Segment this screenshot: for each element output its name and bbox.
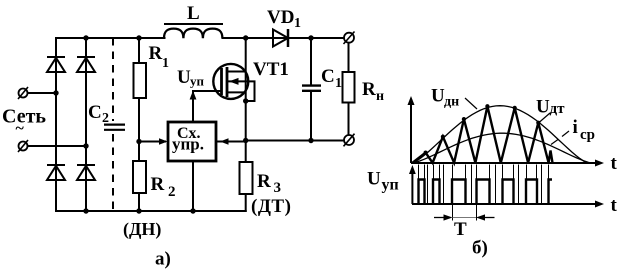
svg-text:R: R [257, 171, 271, 192]
svg-text:C: C [321, 66, 335, 87]
svg-text:2: 2 [102, 111, 109, 126]
svg-text:(ДТ): (ДТ) [251, 196, 291, 217]
svg-text:VD: VD [267, 7, 294, 28]
svg-text:1: 1 [335, 76, 342, 91]
svg-text:T: T [454, 219, 467, 240]
svg-text:н: н [376, 89, 384, 104]
svg-text:упр.: упр. [172, 135, 204, 154]
svg-text:U: U [367, 169, 381, 190]
svg-text:3: 3 [274, 180, 282, 196]
svg-text:1: 1 [294, 16, 301, 31]
svg-text:уп: уп [190, 74, 205, 89]
svg-text:~: ~ [16, 120, 25, 137]
svg-text:(ДН): (ДН) [123, 219, 161, 240]
svg-text:дт: дт [550, 101, 566, 117]
svg-text:R: R [362, 79, 376, 100]
svg-text:R: R [151, 174, 165, 195]
svg-text:VT1: VT1 [253, 59, 289, 80]
svg-text:U: U [431, 86, 445, 107]
svg-text:R: R [149, 43, 163, 64]
svg-text:б): б) [472, 238, 488, 259]
svg-text:1: 1 [162, 56, 169, 71]
svg-text:C: C [88, 102, 102, 123]
svg-text:t: t [611, 153, 618, 174]
svg-text:t: t [611, 195, 618, 216]
svg-text:а): а) [155, 249, 171, 270]
svg-text:ср: ср [580, 127, 595, 143]
svg-text:L: L [187, 3, 200, 24]
svg-text:уп: уп [382, 177, 399, 194]
svg-text:U: U [536, 97, 550, 118]
svg-text:дн: дн [444, 95, 459, 110]
svg-text:Сеть: Сеть [2, 106, 46, 128]
svg-text:U: U [177, 67, 191, 88]
svg-text:i: i [573, 117, 578, 138]
svg-text:2: 2 [168, 184, 176, 200]
